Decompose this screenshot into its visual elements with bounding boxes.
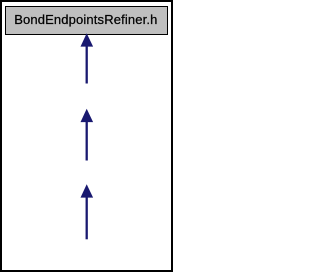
arrow 1 shaft (86, 46, 88, 84)
arrow 3 head (81, 184, 94, 197)
arrows svg (0, 0, 173, 272)
arrow 2 head (81, 109, 94, 122)
label BondEndpointsRefiner.h (14, 13, 157, 26)
arrow 2 shaft (86, 122, 88, 161)
arrow 3 shaft (86, 197, 88, 239)
arrow 1 head (81, 33, 94, 46)
node BondEndpointsRefiner.h (5, 6, 168, 35)
